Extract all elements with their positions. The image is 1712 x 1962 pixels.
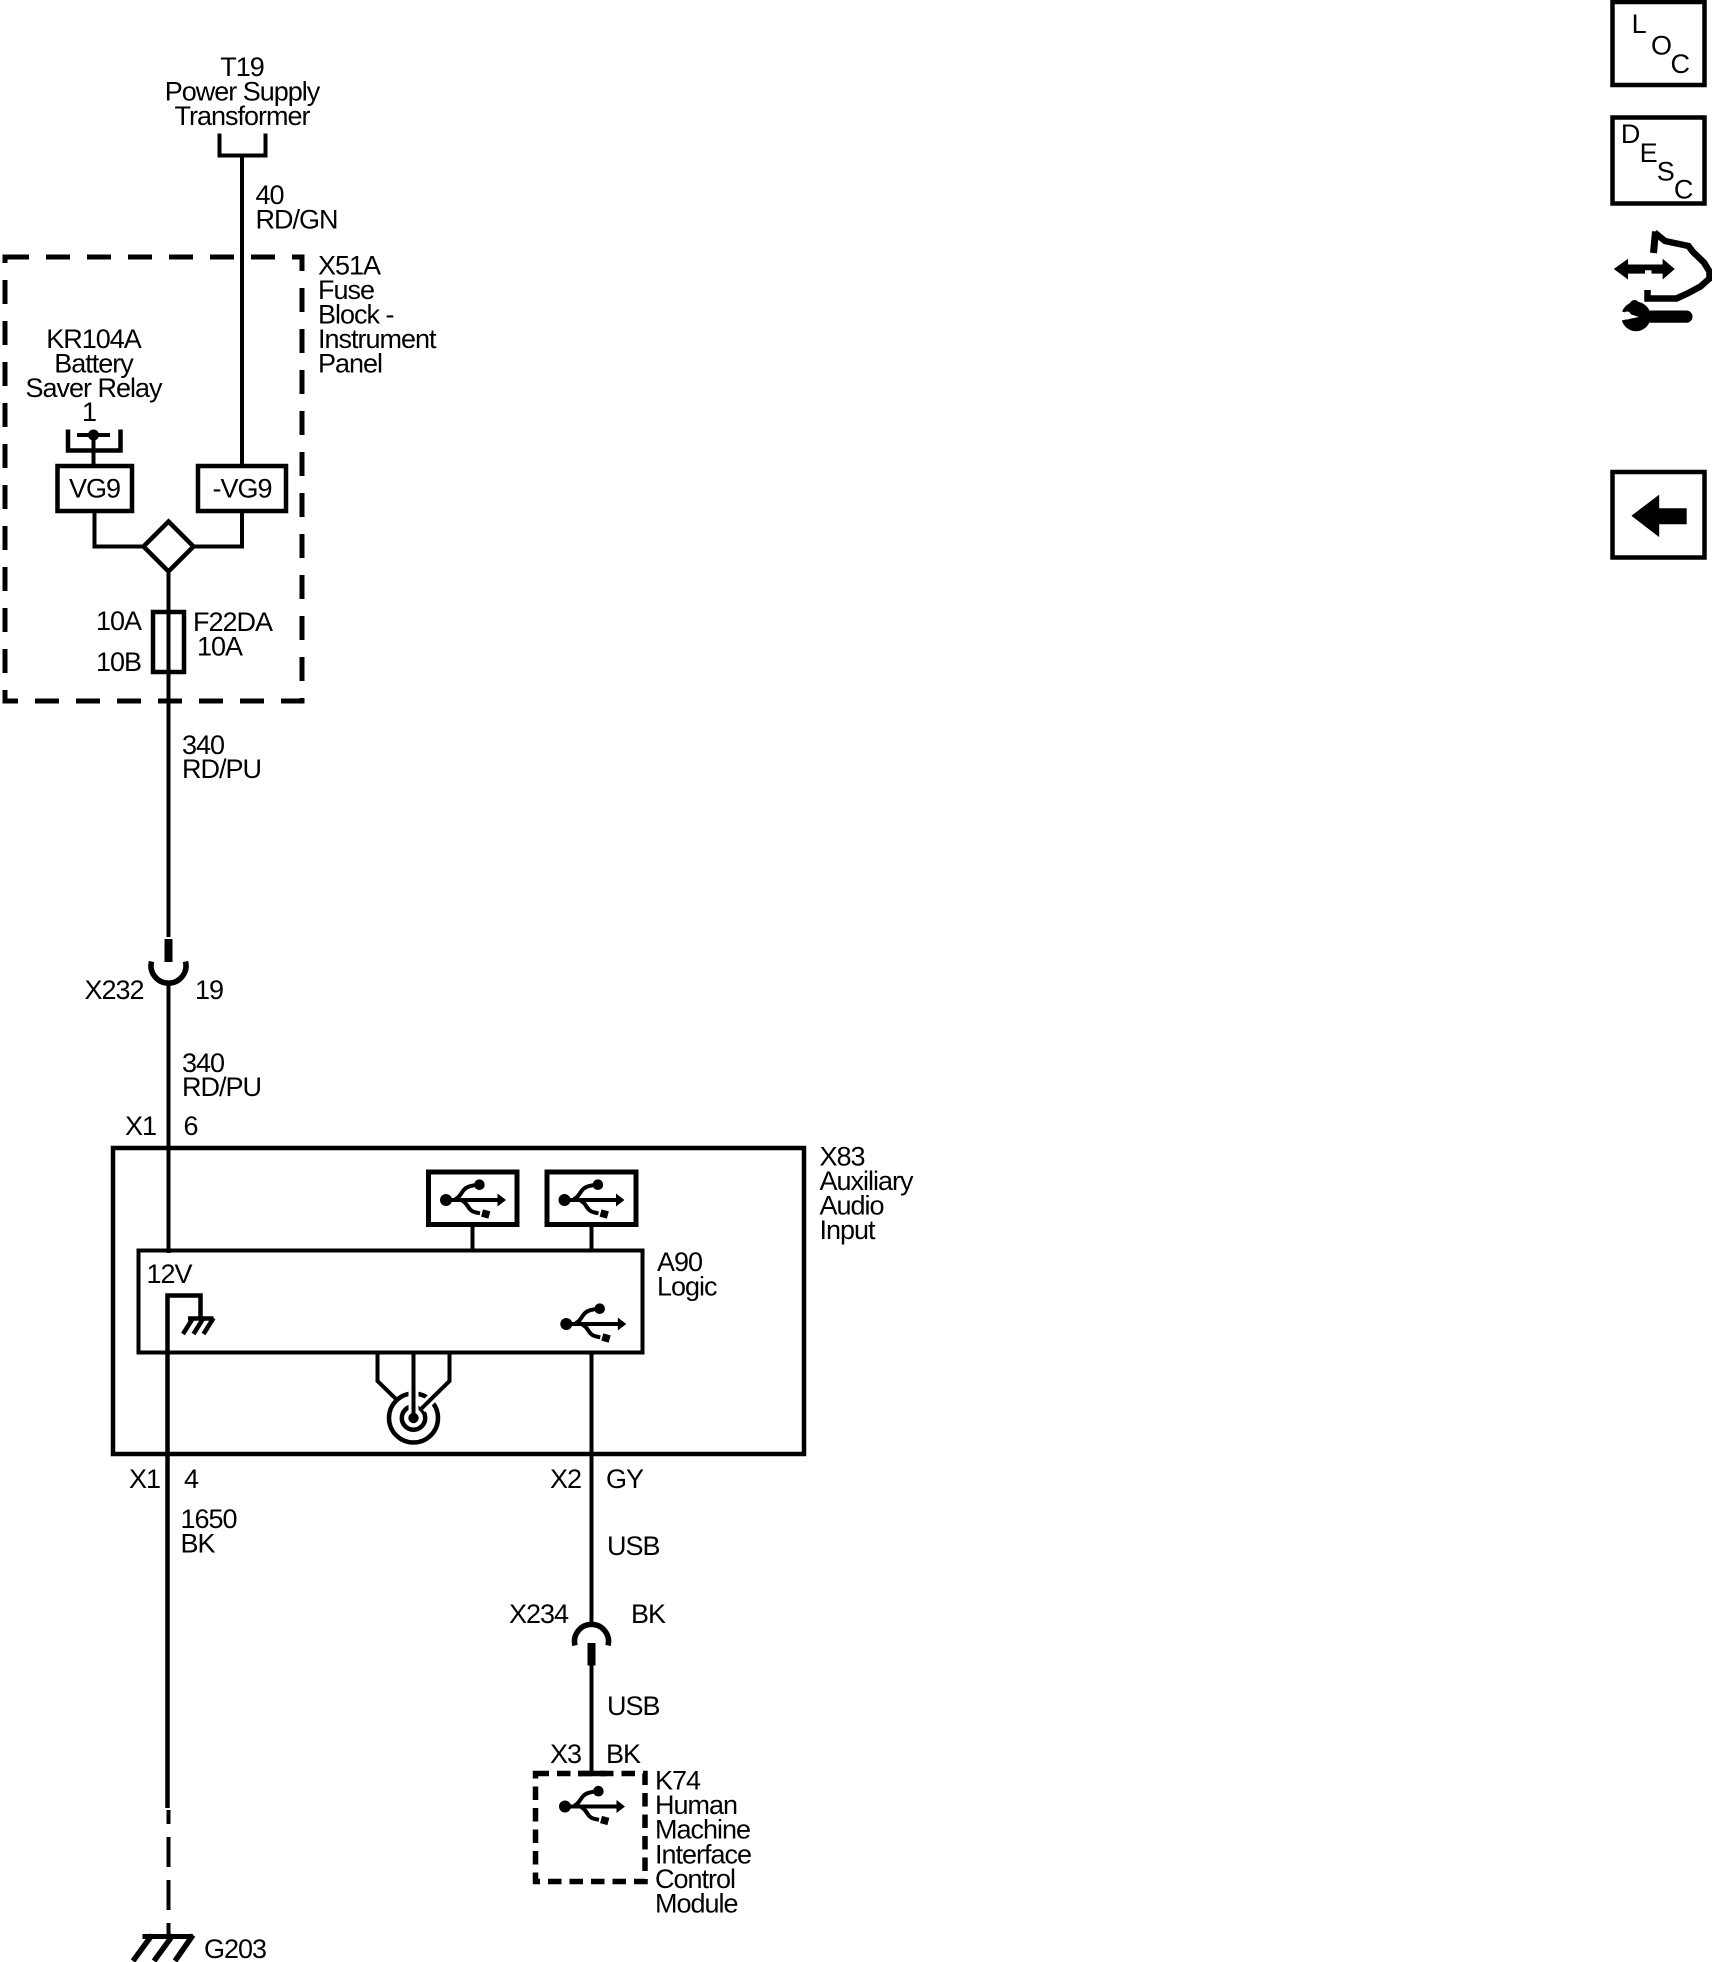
- svg-text:BK: BK: [606, 1739, 641, 1769]
- svg-text:Transformer: Transformer: [174, 101, 310, 131]
- svg-text:10A: 10A: [197, 632, 243, 662]
- svg-text:RD/PU: RD/PU: [182, 1072, 261, 1102]
- svg-text:6: 6: [184, 1111, 198, 1141]
- svg-text:VG9: VG9: [69, 474, 120, 504]
- svg-text:BK: BK: [631, 1599, 666, 1629]
- svg-text:GY: GY: [606, 1464, 644, 1494]
- svg-text:G203: G203: [204, 1934, 266, 1962]
- svg-text:USB: USB: [607, 1691, 660, 1721]
- svg-text:X1: X1: [129, 1464, 160, 1494]
- svg-text:C: C: [1674, 174, 1693, 204]
- svg-text:10B: 10B: [96, 647, 141, 677]
- svg-text:RD/PU: RD/PU: [182, 754, 261, 784]
- svg-text:X232: X232: [84, 975, 143, 1005]
- svg-text:12V: 12V: [147, 1259, 193, 1289]
- svg-text:E: E: [1640, 138, 1657, 168]
- svg-text:19: 19: [195, 975, 223, 1005]
- svg-text:Module: Module: [655, 1889, 738, 1919]
- svg-text:C: C: [1671, 49, 1690, 79]
- svg-text:RD/GN: RD/GN: [256, 204, 338, 234]
- svg-text:X234: X234: [509, 1599, 569, 1629]
- svg-text:Logic: Logic: [657, 1272, 717, 1302]
- svg-text:10A: 10A: [96, 606, 142, 636]
- svg-text:4: 4: [184, 1464, 199, 1494]
- svg-text:USB: USB: [607, 1531, 660, 1561]
- svg-text:S: S: [1657, 157, 1674, 187]
- svg-text:X2: X2: [550, 1464, 581, 1494]
- svg-text:-VG9: -VG9: [212, 474, 271, 504]
- svg-text:X3: X3: [550, 1739, 581, 1769]
- svg-text:BK: BK: [181, 1529, 216, 1559]
- svg-text:O: O: [1651, 31, 1671, 61]
- svg-text:X1: X1: [125, 1111, 156, 1141]
- svg-text:1: 1: [82, 397, 96, 427]
- svg-text:L: L: [1632, 9, 1647, 39]
- svg-text:Panel: Panel: [318, 349, 382, 379]
- svg-text:D: D: [1621, 119, 1640, 149]
- svg-text:Input: Input: [820, 1215, 877, 1245]
